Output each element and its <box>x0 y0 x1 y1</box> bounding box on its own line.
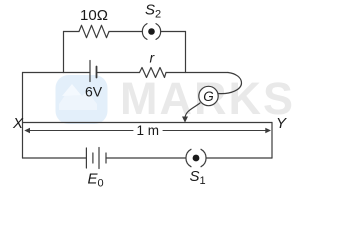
resistor r <box>140 68 167 78</box>
jockey arrowhead <box>182 117 188 123</box>
wire top-left vertical <box>63 32 65 73</box>
svg-text:6V: 6V <box>85 84 103 100</box>
watermark logo <box>56 75 108 124</box>
svg-text:Y: Y <box>276 115 287 132</box>
wire curve into galvanometer <box>218 73 242 94</box>
wire top-right vertical <box>185 32 187 73</box>
wire E0 to key S1 <box>106 157 186 159</box>
measurement right arrowhead <box>265 128 271 134</box>
svg-text:S2: S2 <box>145 2 161 21</box>
potentiometer wire X-Y <box>23 122 273 124</box>
svg-text:G: G <box>203 89 214 104</box>
svg-text:10Ω: 10Ω <box>80 7 108 24</box>
galvanometer G circle <box>199 86 218 105</box>
svg-text:S1: S1 <box>190 168 206 187</box>
key S1 dot <box>193 155 200 162</box>
battery 6V plates <box>89 61 91 82</box>
wire left vertical X branch <box>22 73 24 159</box>
svg-text:1 m: 1 m <box>137 123 160 138</box>
wire bottom-left <box>23 157 87 159</box>
battery E0 plates <box>85 148 87 168</box>
resistor 10ohm <box>79 25 109 37</box>
measurement left arrowhead <box>24 128 30 134</box>
wire resistor to key S2 <box>109 31 143 33</box>
measurement line right segment <box>163 130 267 132</box>
wire top-left horizontal <box>64 31 80 33</box>
svg-text:r: r <box>150 50 156 66</box>
wire right vertical <box>271 123 273 159</box>
wire r to curve <box>166 72 228 74</box>
key S2 <box>142 24 160 40</box>
wire G to jockey <box>185 103 200 118</box>
wire S1 to corner <box>206 157 272 159</box>
wire battery to resistor r <box>97 72 140 74</box>
key S1 <box>186 149 206 166</box>
key S2 dot <box>148 28 155 35</box>
svg-text:X: X <box>12 115 24 132</box>
measurement line left segment <box>27 130 133 132</box>
wire S2 to corner <box>161 31 186 33</box>
svg-text:E0: E0 <box>88 171 104 190</box>
wire middle-left <box>23 72 91 74</box>
